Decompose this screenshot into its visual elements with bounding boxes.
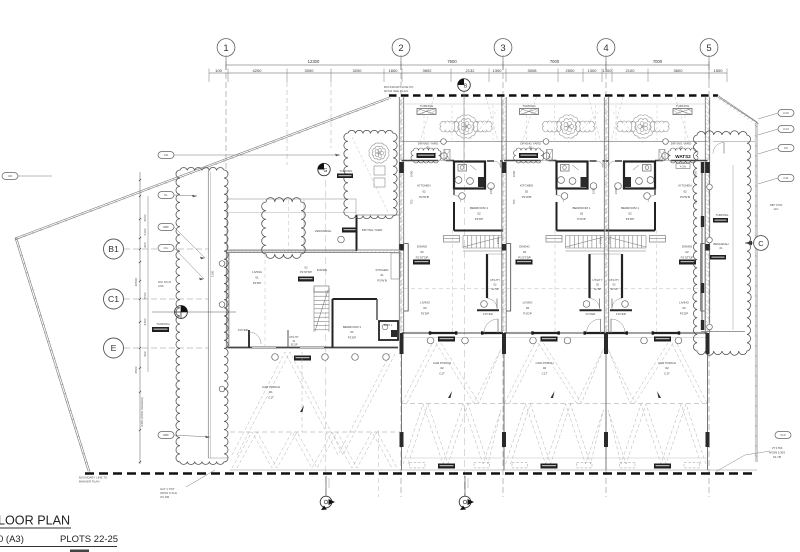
svg-text:02: 02 bbox=[526, 306, 530, 310]
section lines G-G and B-B dashed bbox=[325, 180, 327, 496]
left grid bubbles B1 C1 E bbox=[104, 239, 210, 259]
svg-text:26500: 26500 bbox=[134, 277, 138, 286]
svg-text:SL'SP: SL'SP bbox=[491, 287, 499, 291]
svg-text:1300: 1300 bbox=[493, 68, 503, 73]
svg-text:750: 750 bbox=[512, 199, 516, 204]
svg-text:P2'W'B: P2'W'B bbox=[377, 278, 386, 282]
marker circle-cross left bbox=[152, 306, 236, 319]
boundary left sloped double line bbox=[15, 97, 391, 471]
right keynote ovals bbox=[778, 110, 794, 117]
svg-text:2100: 2100 bbox=[143, 228, 147, 235]
svg-text:3000: 3000 bbox=[305, 68, 315, 73]
svg-text:P1'DP: P1'DP bbox=[577, 217, 585, 221]
svg-text:900: 900 bbox=[143, 351, 147, 356]
left vertical dimension line bbox=[134, 172, 148, 464]
svg-text:SL'SP: SL'SP bbox=[610, 287, 618, 291]
drying yard wall bbox=[356, 215, 358, 251]
svg-text:1: 1 bbox=[223, 43, 228, 54]
svg-text:02: 02 bbox=[596, 283, 599, 287]
svg-text:FOYER: FOYER bbox=[483, 312, 493, 316]
svg-text:KITCHEN: KITCHEN bbox=[417, 184, 430, 188]
svg-text:010: 010 bbox=[780, 433, 785, 437]
svg-text:TURFING: TURFING bbox=[340, 169, 354, 173]
svg-text:K13: K13 bbox=[783, 127, 789, 131]
svg-text:FOYER: FOYER bbox=[616, 312, 626, 316]
svg-text:2500: 2500 bbox=[134, 366, 138, 373]
markers bottom bbox=[320, 476, 335, 510]
revision cloud B veranda bbox=[262, 198, 306, 259]
svg-text:CAR PORCH: CAR PORCH bbox=[535, 361, 553, 365]
svg-text:P1'ST'DP: P1'ST'DP bbox=[681, 255, 694, 259]
svg-text:1800: 1800 bbox=[410, 170, 414, 177]
corner unit side fence bbox=[207, 170, 209, 458]
svg-text:LIVING: LIVING bbox=[679, 301, 690, 305]
svg-text:TURFING: TURFING bbox=[420, 104, 434, 108]
svg-text:3000: 3000 bbox=[143, 214, 147, 221]
svg-text:P1'DP: P1'DP bbox=[475, 217, 483, 221]
svg-text:P1'DP: P1'DP bbox=[348, 335, 356, 339]
unit plot 23 bbox=[399, 97, 503, 470]
svg-text:02: 02 bbox=[529, 145, 533, 149]
svg-text:3400: 3400 bbox=[143, 318, 147, 325]
svg-text:LIVING: LIVING bbox=[523, 301, 534, 305]
svg-text:CAR PORCH: CAR PORCH bbox=[262, 385, 280, 389]
svg-text:2100: 2100 bbox=[626, 68, 636, 73]
svg-text:3692: 3692 bbox=[423, 68, 433, 73]
svg-text:TURFING: TURFING bbox=[676, 104, 690, 108]
svg-text:LOOR PLAN: LOOR PLAN bbox=[0, 514, 70, 528]
corner unit main walls bbox=[226, 249, 401, 251]
marker G on slope bbox=[318, 163, 330, 175]
party wall gridline 4 bbox=[604, 97, 609, 470]
svg-text:AIG: AIG bbox=[774, 207, 779, 211]
boundary bottom heavy dashed bbox=[85, 472, 757, 475]
svg-text:B1: B1 bbox=[108, 244, 119, 254]
grid bubbles top bbox=[217, 39, 235, 66]
svg-text:02: 02 bbox=[422, 189, 426, 193]
svg-text:2600: 2600 bbox=[489, 187, 493, 194]
grid dashed lines vertical bbox=[226, 55, 709, 497]
svg-text:02: 02 bbox=[304, 266, 308, 270]
svg-text:02: 02 bbox=[682, 306, 686, 310]
svg-text:7000: 7000 bbox=[550, 59, 560, 64]
bath corner bbox=[379, 321, 398, 340]
dimension row 1 bbox=[226, 59, 709, 70]
svg-text:P1'ST'DP: P1'ST'DP bbox=[300, 270, 312, 274]
svg-text:DINING: DINING bbox=[417, 245, 428, 249]
svg-text:2: 2 bbox=[398, 43, 403, 54]
title underline bbox=[0, 527, 71, 529]
svg-text:02: 02 bbox=[683, 189, 687, 193]
svg-text:02: 02 bbox=[613, 283, 616, 287]
svg-text:1800: 1800 bbox=[512, 170, 516, 177]
dimension row 2 bbox=[209, 68, 727, 165]
svg-text:2500: 2500 bbox=[566, 68, 576, 73]
boundary top heavy dashed bbox=[389, 94, 718, 97]
svg-text:K11: K11 bbox=[783, 176, 788, 180]
svg-text:VERANDAH: VERANDAH bbox=[315, 229, 332, 233]
svg-text:CAR PORCH: CAR PORCH bbox=[433, 361, 451, 365]
svg-text:KITCHEN: KITCHEN bbox=[520, 184, 533, 188]
svg-text:900: 900 bbox=[143, 242, 147, 247]
corner porch bbox=[232, 352, 397, 468]
stairs corner bbox=[314, 288, 329, 332]
svg-text:NBF: NBF bbox=[163, 433, 169, 437]
svg-text:6300 (PIPE SEWER): 6300 (PIPE SEWER) bbox=[140, 397, 144, 426]
revision cloud A left tall bbox=[176, 168, 228, 465]
svg-text:02: 02 bbox=[440, 366, 444, 370]
svg-text:BESANGAH: BESANGAH bbox=[714, 242, 729, 246]
svg-text:02: 02 bbox=[420, 250, 424, 254]
svg-text:02: 02 bbox=[423, 306, 427, 310]
veranda slab bbox=[227, 199, 356, 251]
svg-text:SL'SP: SL'SP bbox=[594, 287, 602, 291]
svg-text:C1T: C1T bbox=[664, 371, 670, 375]
svg-text:1500: 1500 bbox=[714, 68, 724, 73]
svg-text:C1T: C1T bbox=[268, 395, 274, 399]
svg-text:P2'W'B: P2'W'B bbox=[680, 195, 690, 199]
svg-text:P1'DP: P1'DP bbox=[421, 312, 429, 316]
svg-text:5: 5 bbox=[706, 43, 711, 54]
svg-text:3100: 3100 bbox=[211, 270, 215, 277]
svg-text:02: 02 bbox=[628, 212, 632, 216]
svg-text:C1: C1 bbox=[108, 294, 119, 304]
svg-text:LIVING: LIVING bbox=[420, 301, 431, 305]
svg-text:3200: 3200 bbox=[353, 68, 363, 73]
svg-text:01: 01 bbox=[350, 330, 354, 334]
svg-text:100: 100 bbox=[215, 68, 222, 73]
svg-text:4: 4 bbox=[603, 43, 608, 54]
svg-text:P1'ST'DP: P1'ST'DP bbox=[416, 255, 429, 259]
svg-text:KITCHEN: KITCHEN bbox=[678, 184, 691, 188]
svg-text:1760: 1760 bbox=[599, 237, 603, 244]
marker B top bbox=[458, 79, 471, 168]
svg-text:S1.7M: S1.7M bbox=[773, 455, 782, 459]
svg-text:E: E bbox=[111, 343, 117, 353]
svg-text:BEDROOM 1: BEDROOM 1 bbox=[470, 206, 488, 210]
svg-text:UTILITY: UTILITY bbox=[592, 278, 602, 282]
svg-text:FOYER: FOYER bbox=[238, 328, 248, 332]
svg-text:BEDROOM 1: BEDROOM 1 bbox=[572, 206, 590, 210]
svg-text:C1T: C1T bbox=[439, 371, 445, 375]
svg-text:UTILITY: UTILITY bbox=[609, 278, 619, 282]
bedroom corner bbox=[332, 299, 334, 348]
svg-text:1600: 1600 bbox=[389, 68, 399, 73]
svg-text:P1'DP: P1'DP bbox=[680, 312, 688, 316]
svg-text:KL: KL bbox=[164, 193, 168, 197]
svg-text:ICL: ICL bbox=[164, 246, 169, 250]
svg-text:3008: 3008 bbox=[528, 68, 538, 73]
svg-text:K9: K9 bbox=[784, 146, 788, 150]
svg-text:DRYING YARD: DRYING YARD bbox=[362, 228, 383, 232]
svg-text:02: 02 bbox=[685, 250, 689, 254]
svg-text:P1'ST'DP: P1'ST'DP bbox=[518, 255, 531, 259]
svg-text:2132: 2132 bbox=[466, 68, 476, 73]
boundary bottom note bbox=[79, 476, 108, 484]
svg-text:TURFING: TURFING bbox=[716, 213, 730, 217]
svg-text:BEDROOM 1: BEDROOM 1 bbox=[621, 206, 639, 210]
svg-text:1300: 1300 bbox=[603, 68, 613, 73]
unit plot 24 bbox=[502, 97, 606, 470]
svg-text:P2'W'B: P2'W'B bbox=[419, 195, 429, 199]
svg-text:01: 01 bbox=[720, 246, 723, 250]
svg-text:BEDROOM 1: BEDROOM 1 bbox=[343, 325, 361, 329]
svg-text:KITCHEN: KITCHEN bbox=[376, 268, 389, 272]
svg-text:TURFING: TURFING bbox=[522, 104, 536, 108]
svg-text:02: 02 bbox=[426, 145, 430, 149]
revision cloud C yard bbox=[344, 130, 397, 218]
svg-text:G: G bbox=[324, 168, 328, 174]
svg-text:WATS2: WATS2 bbox=[675, 154, 691, 159]
svg-text:DINING: DINING bbox=[519, 245, 530, 249]
svg-text:4200: 4200 bbox=[253, 68, 263, 73]
svg-text:K10: K10 bbox=[783, 111, 789, 115]
svg-text:C: C bbox=[758, 239, 764, 248]
small notes left bbox=[158, 280, 172, 288]
svg-text:BHHKER PLAN: BHHKER PLAN bbox=[79, 480, 99, 484]
svg-text:C1T: C1T bbox=[542, 371, 548, 375]
revision cloud F right tall bbox=[693, 131, 751, 355]
svg-text:90722 SEE PLAN: 90722 SEE PLAN bbox=[384, 89, 408, 93]
svg-text:2600: 2600 bbox=[592, 187, 596, 194]
svg-text:BATH 1: BATH 1 bbox=[384, 324, 393, 327]
svg-text:DINING: DINING bbox=[317, 268, 328, 272]
svg-text:7600: 7600 bbox=[447, 59, 457, 64]
svg-text:1300: 1300 bbox=[588, 68, 598, 73]
svg-text:02: 02 bbox=[543, 366, 547, 370]
svg-text:7000: 7000 bbox=[653, 59, 663, 64]
svg-text:UTILITY: UTILITY bbox=[490, 278, 500, 282]
svg-text:3600: 3600 bbox=[674, 68, 684, 73]
svg-text:01: 01 bbox=[380, 273, 384, 277]
svg-text:02: 02 bbox=[525, 189, 529, 193]
svg-text:02: 02 bbox=[580, 212, 584, 216]
svg-text:01: 01 bbox=[255, 276, 259, 280]
svg-text:02: 02 bbox=[477, 212, 481, 216]
svg-text:SL'SP: SL'SP bbox=[291, 344, 298, 347]
unit plot 25 mirrored bbox=[606, 97, 710, 470]
keynote circles below wall bbox=[272, 354, 279, 361]
svg-text:4 1%: 4 1% bbox=[680, 164, 687, 168]
svg-text:3: 3 bbox=[500, 43, 505, 54]
svg-text:AOK: AOK bbox=[158, 284, 164, 288]
subtitle underline bbox=[0, 546, 117, 548]
svg-text:02: 02 bbox=[665, 366, 669, 370]
svg-text:12300: 12300 bbox=[308, 59, 320, 64]
svg-text:01: 01 bbox=[269, 390, 273, 394]
svg-text:2600: 2600 bbox=[614, 187, 618, 194]
svg-text:02: 02 bbox=[494, 283, 497, 287]
svg-text:02: 02 bbox=[679, 145, 683, 149]
C bubble right bbox=[754, 236, 769, 251]
svg-text:750: 750 bbox=[410, 199, 414, 204]
boundary right bbox=[716, 96, 759, 463]
svg-text:HOSN 1/303: HOSN 1/303 bbox=[769, 450, 785, 454]
svg-text:P2'W'B: P2'W'B bbox=[522, 195, 532, 199]
svg-text:UTILITY: UTILITY bbox=[289, 336, 299, 339]
svg-text:DINING: DINING bbox=[682, 245, 693, 249]
svg-text:0 (A3): 0 (A3) bbox=[0, 534, 24, 545]
svg-text:P1'DP: P1'DP bbox=[626, 217, 634, 221]
svg-text:OS RM: OS RM bbox=[160, 495, 170, 499]
svg-text:TURFING: TURFING bbox=[156, 322, 170, 326]
svg-text:NBF: NBF bbox=[163, 225, 169, 229]
svg-text:P1'DP: P1'DP bbox=[253, 281, 261, 285]
right strip lines bbox=[713, 141, 755, 143]
left leader ovals bbox=[158, 152, 340, 159]
svg-text:VT 1760: VT 1760 bbox=[772, 446, 783, 450]
svg-text:PLOTS 22-25: PLOTS 22-25 bbox=[60, 534, 118, 545]
svg-text:CAR PORCH: CAR PORCH bbox=[658, 361, 676, 365]
svg-text:LIVING: LIVING bbox=[252, 270, 263, 274]
svg-text:FOYER: FOYER bbox=[586, 312, 596, 316]
svg-text:P1'DP: P1'DP bbox=[523, 312, 531, 316]
porch front edge line bbox=[230, 469, 757, 471]
bottom right notes bbox=[775, 432, 791, 439]
boundary note text bbox=[384, 85, 414, 93]
svg-text:1760: 1760 bbox=[496, 237, 500, 244]
svg-text:7000: 7000 bbox=[143, 292, 147, 299]
svg-text:02: 02 bbox=[523, 250, 527, 254]
